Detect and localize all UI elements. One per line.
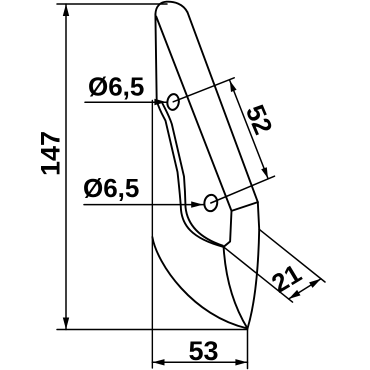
svg-text:53: 53 xyxy=(188,336,218,366)
svg-text:147: 147 xyxy=(36,131,66,176)
svg-text:Ø6,5: Ø6,5 xyxy=(88,72,144,102)
svg-text:Ø6,5: Ø6,5 xyxy=(83,173,139,203)
